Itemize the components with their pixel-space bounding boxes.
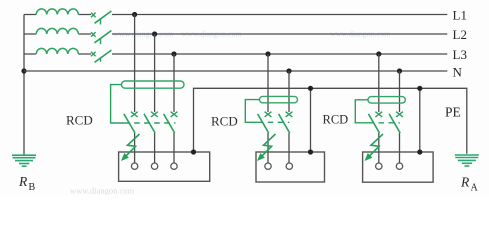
wire drop RCD1 phase C upper [173, 54, 175, 112]
switch QS pole 3 contact [91, 52, 96, 57]
load box 3 terminal 2 [396, 163, 402, 169]
winding L1 [36, 9, 78, 15]
load box 2 terminal 2 [286, 163, 292, 169]
winding L3 lead wires [24, 53, 91, 55]
transformer star-point vertical wire [23, 15, 25, 156]
svg-text:B: B [29, 182, 36, 193]
wire drop RCD1 phase B upper [154, 34, 156, 112]
svg-text:R: R [18, 174, 28, 189]
wire drop RCD3 neutral lower [399, 133, 401, 163]
bus L1 [112, 14, 447, 16]
svg-text:www.diangon.com: www.diangon.com [70, 186, 135, 196]
switch QS pole 3 blade [95, 50, 112, 62]
wire PE drop box2 [310, 88, 312, 152]
node PE tap box3 [417, 86, 422, 91]
RCD2 trip linkage [245, 100, 259, 123]
load box 1 [119, 152, 210, 181]
switch QS pole 2 blade [95, 31, 112, 43]
RCD2 contact 2 [286, 112, 293, 117]
wire drop RCD1 phase C lower [173, 133, 175, 163]
RCD2 blade 1 [258, 114, 269, 133]
node PE to box3 [417, 149, 422, 154]
node N tap RCD3 [397, 68, 402, 73]
node PE tap box2 [308, 86, 313, 91]
winding L2 [36, 28, 78, 34]
RCD2 blade 2 [279, 114, 290, 133]
RCD3 trip linkage [355, 100, 368, 123]
PE conductor [194, 88, 467, 154]
RCD1 contact 2 [151, 112, 158, 117]
node: star point to N junction [21, 68, 26, 73]
node L2 tap [152, 31, 157, 36]
wire drop RCD2 neutral upper [288, 71, 290, 112]
winding L1 lead wires [24, 14, 91, 16]
RCD2 toroid [260, 96, 298, 102]
winding L3 [36, 48, 78, 54]
wire drop RCD1 phase A lower [134, 133, 136, 163]
ground electrode RA [455, 155, 479, 166]
wire drop RCD1 phase A upper [134, 15, 136, 113]
switch QS linkage [100, 18, 102, 61]
load box 1 terminal 1 [131, 163, 137, 169]
switch QS pole 1 contact [91, 13, 96, 18]
load box 2 [256, 152, 325, 182]
load box 1 terminal 3 [171, 163, 177, 169]
node L1 tap [132, 12, 137, 17]
RCD1 trip linkage [111, 85, 125, 123]
wire drop RCD1 phase B lower [154, 133, 156, 163]
node N tap RCD2 [286, 68, 291, 73]
leakage arrow 2 [257, 134, 276, 161]
wire PE drop box3 [419, 88, 421, 152]
svg-text:L2: L2 [453, 27, 467, 42]
load box 1 terminal 2 [151, 163, 157, 169]
load box 3 terminal 1 [376, 163, 382, 169]
node L3 tap RCD2 [265, 51, 270, 56]
wire drop RCD3 phase upper [378, 54, 380, 112]
RCD3 blade 1 [368, 114, 379, 133]
wire drop RCD2 neutral lower [288, 133, 290, 163]
bus L2 [112, 33, 447, 35]
winding L2 lead wires [24, 33, 91, 35]
wire drop RCD2 phase lower [267, 133, 269, 163]
bus L3 [112, 53, 447, 55]
leakage arrow 3 [365, 134, 384, 161]
switch QS pole 2 contact [91, 32, 96, 37]
RCD1 blade 1 [124, 114, 135, 133]
svg-text:RCD: RCD [323, 112, 349, 126]
node PE to box2 [308, 149, 313, 154]
RCD1 blade 2 [144, 114, 155, 133]
ground electrode RB [12, 155, 36, 166]
RCD2 linkage dashed [258, 121, 290, 123]
svg-text:N: N [453, 64, 463, 79]
RCD1 contact 3 [171, 112, 178, 117]
bus N [24, 70, 447, 72]
svg-text:L3: L3 [453, 47, 467, 62]
node L3 tap RCD1 [171, 51, 176, 56]
wire drop RCD2 phase upper [267, 54, 269, 112]
RCD1 contact 1 [131, 112, 138, 117]
RCD2 contact 1 [265, 112, 272, 117]
wire drop RCD3 neutral upper [399, 71, 401, 112]
RCD3 toroid [368, 97, 405, 104]
RCD3 linkage dashed [369, 122, 400, 124]
switch QS pole 1 blade [95, 11, 112, 23]
wire drop RCD3 phase lower [378, 133, 380, 163]
svg-text:A: A [471, 183, 479, 194]
leakage arrow 1 [121, 134, 140, 161]
svg-text:RCD: RCD [211, 113, 238, 128]
RCD3 contact 2 [396, 112, 403, 117]
load box 2 terminal 1 [265, 163, 271, 169]
load box 3 [363, 152, 434, 182]
svg-text:PE: PE [445, 105, 461, 120]
RCD3 contact 1 [375, 112, 382, 117]
RCD1 blade 3 [164, 114, 175, 133]
svg-text:R: R [460, 175, 470, 190]
RCD1 toroid [122, 81, 185, 88]
RCD3 blade 2 [389, 114, 400, 133]
node L3 tap RCD3 [376, 51, 381, 56]
svg-text:RCD: RCD [66, 112, 93, 127]
node PE to box1 [191, 149, 196, 154]
RCD1 linkage dashed [124, 122, 175, 124]
svg-text:L1: L1 [453, 8, 467, 23]
